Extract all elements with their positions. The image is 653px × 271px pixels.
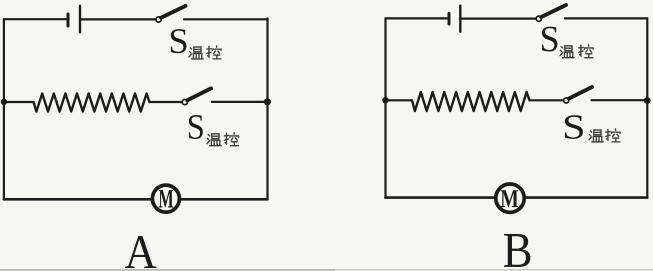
scan artifact: bottom edge line (0, 269, 653, 271)
label S of middle switch (circuit B) (565, 115, 583, 139)
motor M (circuit A): circle (152, 185, 179, 212)
node: A middle-right junction dot (264, 98, 271, 105)
wire: B bottom, motor to right corner (526, 196, 648, 199)
wire: A middle, resistor to switch (150, 101, 182, 103)
wire: A middle, node to resistor (4, 101, 34, 103)
node: A middle-left junction dot (1, 99, 7, 105)
label wenkong subscript of middle switch (circuit A) (207, 133, 239, 146)
motor M letter (circuit B) (501, 190, 519, 207)
wire: A top, switch to right corner (184, 18, 268, 20)
switch S-wenkong middle (circuit B): pivot circle and open lever (564, 87, 592, 103)
wire: B middle, switch to right node (592, 99, 648, 101)
wire: A bottom, left corner to motor (4, 198, 151, 201)
wire: B top, switch to right corner (565, 17, 647, 19)
wire: A left vertical (3, 19, 5, 199)
label wenkong subscript of middle switch (circuit B) (589, 129, 620, 142)
node: B middle-left junction dot (382, 97, 388, 103)
switch S-wenkong top (circuit A): pivot circle and open lever (156, 6, 186, 22)
motor M (circuit B): circle (496, 184, 524, 212)
wire: B top, left corner to battery (386, 17, 448, 19)
wire: A bottom, motor to right corner (181, 198, 267, 201)
label S of top switch (circuit A) (171, 29, 187, 53)
wire: B bottom, left corner to motor (386, 196, 495, 199)
wire: A right vertical (266, 18, 268, 199)
label B (circuit B caption) (504, 234, 530, 267)
battery G (circuit A) (68, 6, 80, 33)
node: B middle-right junction dot (644, 97, 651, 104)
switch S-wenkong middle (circuit A): pivot circle and open lever (182, 88, 211, 104)
wire: B top, battery to switch (461, 18, 535, 20)
wire: B right vertical (646, 18, 648, 197)
resistor R (circuit B) (412, 92, 530, 111)
label A (circuit A caption) (125, 236, 156, 268)
label wenkong subscript of top switch (circuit A) (189, 46, 221, 59)
label S of middle switch (circuit A) (189, 115, 203, 139)
resistor R (circuit A) (34, 94, 150, 112)
battery G (circuit B) (449, 6, 460, 32)
label S of top switch (circuit B) (542, 27, 557, 52)
wire: A top, battery to switch (81, 18, 155, 20)
switch S-wenkong top (circuit B): pivot circle and open lever (536, 5, 566, 21)
wire: A top, left corner to battery (4, 18, 67, 20)
wire: B left vertical (384, 18, 386, 197)
motor M letter (circuit A) (159, 190, 174, 208)
wire: B middle, resistor to switch (530, 99, 564, 101)
wire: A middle, switch to right node (212, 101, 268, 103)
label wenkong subscript of top switch (circuit B) (560, 45, 593, 58)
wire: B middle, node to resistor (386, 99, 413, 101)
